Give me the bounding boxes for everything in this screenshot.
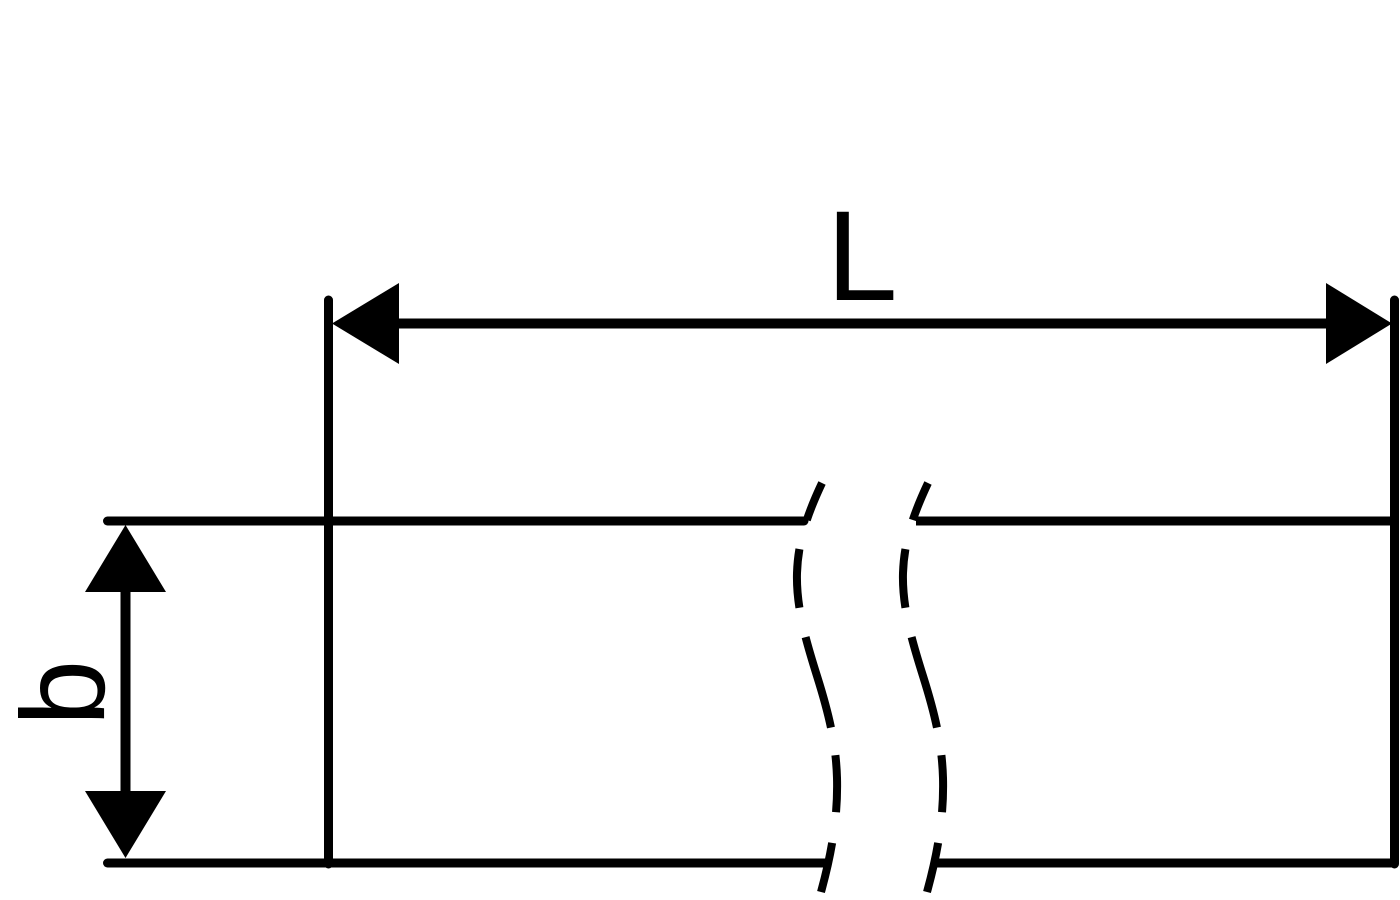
dimension line b (vertical): [121, 588, 131, 795]
bar top edge right of break: [916, 517, 1395, 526]
bar bottom edge right of break: [937, 859, 1395, 868]
arrowhead b top: [85, 525, 166, 592]
arrowhead L left: [332, 283, 399, 364]
extension line right (vertical, for L dimension / bar right edge): [1390, 300, 1399, 864]
bar top edge with left extension line for b: [108, 517, 805, 526]
svg-text:b: b: [0, 660, 130, 726]
break line right (dashed wavy): [903, 483, 943, 892]
svg-text:L: L: [826, 185, 897, 328]
bar bottom edge with left extension line for b: [108, 859, 828, 868]
arrowhead L right: [1326, 283, 1392, 364]
dimension line L (horizontal): [395, 319, 1330, 329]
arrowhead b bottom: [85, 791, 166, 858]
extension line left (vertical, for L dimension / bar left edge): [324, 300, 333, 864]
break line left (dashed wavy): [797, 483, 837, 892]
